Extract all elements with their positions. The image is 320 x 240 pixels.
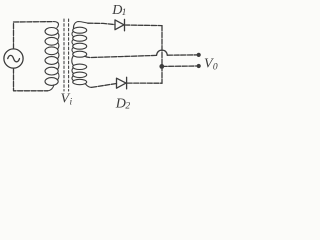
- svg-text:D: D: [115, 96, 126, 111]
- output terminal bottom: [197, 64, 201, 68]
- wire diode D2 to corner: [127, 82, 162, 84]
- wire secondary top to diode D1: [88, 23, 115, 24]
- junction dot: [159, 64, 164, 69]
- wire secondary center tap: [85, 55, 157, 57]
- svg-text:1: 1: [122, 8, 127, 18]
- wire bottom-left from source to primary: [14, 68, 48, 91]
- transformer primary winding: [45, 22, 59, 91]
- ac source: [4, 49, 23, 68]
- wire secondary bottom to diode D2: [92, 84, 117, 88]
- wire right vertical: [161, 26, 163, 84]
- svg-text:2: 2: [125, 102, 130, 112]
- wire top-left from source to primary: [14, 22, 54, 49]
- transformer secondary winding upper: [72, 22, 88, 58]
- wire junction to bottom output terminal: [162, 65, 199, 67]
- diode D1: [115, 20, 124, 30]
- svg-text:0: 0: [213, 63, 218, 73]
- svg-text:i: i: [70, 97, 73, 107]
- diode D2: [117, 78, 127, 88]
- transformer core: [63, 19, 65, 91]
- transformer secondary winding lower: [72, 56, 92, 88]
- crossover hop: [157, 50, 168, 55]
- output terminal top: [197, 53, 201, 57]
- wire hop to top output terminal: [167, 54, 198, 56]
- wire diode D1 to corner: [125, 24, 163, 27]
